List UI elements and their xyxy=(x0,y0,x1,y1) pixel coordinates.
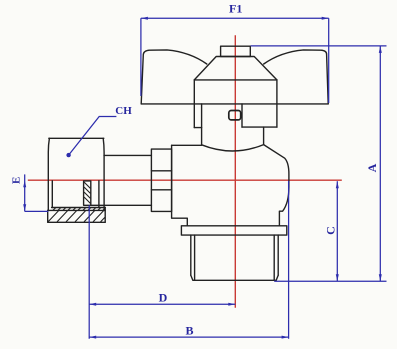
svg-text:CH: CH xyxy=(115,105,132,117)
svg-text:E: E xyxy=(10,177,22,184)
svg-text:B: B xyxy=(185,324,193,338)
svg-text:D: D xyxy=(159,290,168,304)
svg-text:C: C xyxy=(324,226,338,235)
svg-text:F1: F1 xyxy=(229,2,242,16)
svg-text:A: A xyxy=(365,163,379,172)
